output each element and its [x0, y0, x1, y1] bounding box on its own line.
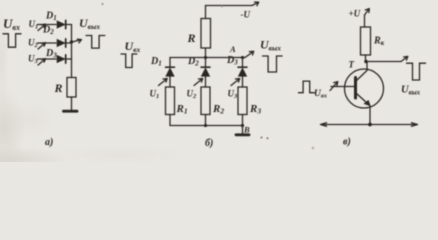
diode D3 — [57, 55, 72, 63]
resistor R — [67, 78, 76, 98]
bottom rail b — [170, 125, 243, 127]
resistor R (load) — [201, 19, 211, 49]
speck top middle — [102, 3, 104, 5]
bottom rail v — [321, 124, 417, 126]
arrow input U1 (b) — [159, 79, 168, 86]
label Uvx v — [314, 89, 328, 100]
label U1 (b) — [150, 89, 160, 101]
resistor Rk — [361, 27, 371, 55]
svg-text:+U: +U — [349, 9, 361, 19]
arrow +U — [365, 9, 370, 15]
node junction A-rail — [241, 56, 244, 59]
arrow input v — [330, 82, 338, 91]
wire collector output — [366, 61, 401, 63]
node B — [241, 124, 244, 127]
diode D1 (b) — [166, 58, 175, 88]
label B — [243, 125, 250, 135]
node junction R2-bottom — [204, 124, 207, 127]
label +U — [349, 9, 361, 19]
caption b) — [205, 138, 213, 149]
label D3 — [45, 48, 57, 60]
wire input row 1 — [38, 24, 57, 26]
wire Rk to collector node — [365, 55, 367, 62]
wire emitter to rail — [369, 106, 371, 125]
label -U — [241, 10, 251, 20]
transistor T circle — [345, 69, 384, 108]
diode D2 — [57, 39, 72, 47]
label Uvyx (output) — [79, 16, 100, 31]
label D1 (b) — [150, 56, 162, 68]
speck top right of a — [221, 6, 223, 8]
resistor R2 — [201, 87, 210, 115]
paper shading bottom-left — [0, 88, 26, 168]
label Uvx (input voltage) — [3, 16, 20, 32]
label R1 — [176, 103, 188, 116]
svg-text:A: A — [229, 44, 236, 54]
input pulse waveform (negative) — [3, 34, 21, 47]
svg-text:в): в) — [343, 137, 351, 148]
label Uvyx v — [401, 85, 421, 97]
arrow input U2 (b) — [194, 79, 203, 86]
label R3 — [249, 103, 261, 116]
diode D3 (b) — [238, 58, 247, 88]
label Uvx (input voltage b) — [125, 39, 141, 54]
ground — [64, 110, 78, 113]
caption v) — [343, 137, 351, 148]
label R — [187, 31, 196, 45]
label A — [229, 44, 236, 54]
svg-text:B: B — [243, 125, 250, 135]
wire to ground — [71, 97, 73, 110]
label Rk — [373, 36, 385, 48]
faint speck bottom right — [312, 147, 315, 150]
output pulse waveform v (negative) — [407, 63, 426, 80]
speck dots after b) — [260, 136, 262, 138]
output pulse waveform b (negative) — [263, 56, 283, 72]
svg-text:R: R — [187, 31, 196, 45]
label U3 (b) — [228, 89, 239, 101]
wire base input — [331, 86, 354, 88]
arrow input row 3 — [38, 59, 46, 65]
label R2 — [212, 103, 224, 116]
node junction R-rail — [204, 56, 207, 59]
label U2 — [28, 37, 39, 49]
paper background — [0, 0, 438, 162]
arrow input row 1 — [38, 24, 46, 30]
arrow input row 2 — [38, 43, 46, 49]
input pulse waveform b (negative) — [121, 54, 137, 68]
diode D2 (b) — [201, 58, 210, 88]
svg-text:а): а) — [45, 137, 53, 148]
node junction output — [70, 40, 73, 43]
resistor R3 — [238, 87, 247, 115]
top rail — [170, 57, 245, 59]
arrowhead rail right — [412, 123, 418, 127]
label T — [349, 60, 355, 70]
resistor R1 — [166, 87, 175, 115]
label U3 — [28, 54, 39, 66]
wire common bus — [71, 25, 73, 78]
transistor emitter lead with arrow — [357, 94, 371, 106]
wire R2 to bottom rail — [205, 115, 207, 126]
arrow output v — [401, 56, 408, 61]
wire input row 3 — [38, 58, 57, 60]
label R — [54, 81, 63, 95]
transistor collector lead — [357, 62, 368, 81]
caption a) — [45, 137, 53, 148]
arrow output tap — [72, 39, 82, 43]
supply wire -U — [206, 6, 253, 19]
wire B to ground — [242, 126, 244, 134]
wire R to rail — [205, 48, 207, 58]
svg-text:R: R — [54, 81, 63, 95]
arrow node A output — [245, 51, 254, 57]
ground (b) — [236, 133, 249, 136]
diode D1 — [57, 20, 72, 28]
label D2 (b) — [187, 56, 199, 68]
arrow input U3 (b) — [231, 79, 240, 86]
label D3 (b) — [226, 55, 238, 67]
svg-text:-U: -U — [241, 10, 251, 20]
label Uvyx b — [260, 38, 281, 53]
supply wire +U — [364, 15, 366, 27]
arrowhead rail left — [321, 123, 327, 127]
svg-text:T: T — [349, 60, 355, 70]
wire R3 to bottom rail — [242, 115, 244, 126]
output pulse waveform (negative) — [86, 36, 105, 49]
svg-text:б): б) — [205, 138, 213, 149]
node collector junction — [364, 60, 368, 64]
arrow -U — [252, 2, 259, 6]
label D2 — [42, 25, 54, 37]
label U2 (b) — [187, 89, 198, 101]
transistor base bar — [354, 78, 357, 99]
input pulse waveform v (positive) — [299, 81, 315, 93]
label D1 — [45, 11, 57, 23]
node emitter-rail junction — [368, 123, 372, 127]
wire input row 2 — [38, 42, 57, 44]
wire R1 to bottom rail — [169, 115, 171, 126]
label U1 — [29, 19, 39, 31]
